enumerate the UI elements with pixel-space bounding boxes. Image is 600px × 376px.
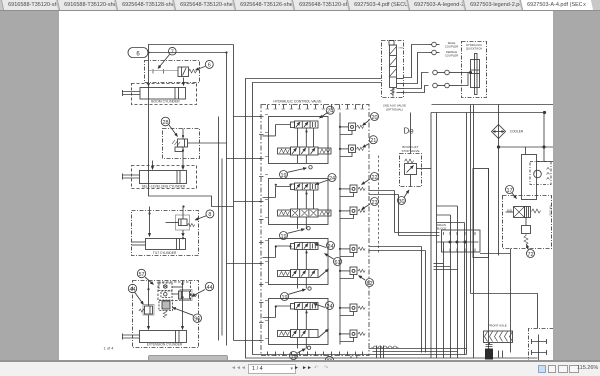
svg-text:De: De — [404, 127, 415, 136]
solenoid valve V2 — [278, 147, 332, 155]
relief valve RV5 — [339, 245, 365, 257]
svg-text:57: 57 — [138, 272, 144, 278]
relief valve RV4 — [339, 207, 365, 219]
wire bundle vertical D — [233, 45, 235, 341]
cooler — [492, 125, 506, 139]
top rail A — [432, 104, 554, 106]
node 19 callout circle d — [290, 346, 311, 360]
wire aux to couplers — [404, 45, 429, 93]
svg-text:20: 20 — [371, 115, 377, 121]
svg-text:22: 22 — [371, 175, 377, 181]
tilt valve — [166, 215, 195, 230]
boom pilot valve enclosure — [145, 61, 200, 83]
svg-text:30: 30 — [398, 199, 404, 205]
wire V3-V4 — [298, 190, 314, 229]
wire V7-V8 — [298, 310, 307, 349]
node 57 callout circle — [137, 269, 153, 284]
label 2ND AUX VALVE — [383, 104, 406, 112]
wire right risers — [351, 191, 440, 359]
label EXTENSION CYLINDER — [147, 342, 183, 346]
label HYDRAULIC QUICKTACH — [466, 43, 482, 51]
label COOLER — [510, 130, 524, 134]
tilt cylinder — [132, 239, 186, 250]
label FEMALE COUPLER — [445, 50, 459, 58]
label BOOM LIFT STOP VALVE — [401, 145, 419, 153]
node 24 callout circle section4 — [314, 302, 334, 310]
label TILT CYLINDER — [153, 251, 177, 255]
relief valve RV2 — [339, 145, 364, 157]
boom group outer frame — [149, 45, 234, 207]
directional valve V7 — [263, 303, 319, 318]
node 19 callout circle a — [280, 166, 313, 180]
svg-text:6: 6 — [208, 63, 211, 69]
svg-text:62: 62 — [366, 281, 372, 287]
wire valve to tilt cylinder — [182, 207, 184, 240]
aux valve enclosure — [382, 41, 404, 98]
label BOOM CYLINDER — [151, 99, 180, 103]
node 6 callout circle — [196, 60, 214, 70]
svg-text:6: 6 — [136, 52, 140, 58]
boom lift stop valve V9 — [405, 159, 432, 187]
left border ports — [259, 117, 264, 341]
svg-text:19: 19 — [280, 173, 286, 179]
quicktach enclosure — [462, 42, 487, 98]
self-levelling valve — [172, 135, 227, 152]
steering unit enclosure — [529, 329, 554, 362]
svg-text:24: 24 — [326, 304, 332, 310]
valve section frame 3 — [269, 239, 329, 285]
valve section frame 2 — [269, 179, 329, 225]
top rail B — [431, 111, 546, 113]
label DRAIN BLOCK — [437, 223, 447, 231]
node 96 callout circle — [173, 308, 202, 323]
wire to tilt cylinder rod end — [149, 207, 151, 237]
node 17 callout circle — [506, 186, 517, 199]
svg-text:TILT CYLINDER: TILT CYLINDER — [153, 251, 177, 255]
node 24 callout circle section2 — [316, 174, 337, 185]
svg-text:COUPLER: COUPLER — [445, 45, 459, 49]
svg-text:8: 8 — [208, 212, 211, 218]
female coupler — [429, 50, 440, 55]
wire drain feeders — [434, 264, 458, 270]
node 24 callout circle section3 — [315, 242, 335, 250]
wire bundle vertical A — [218, 117, 220, 341]
boom cylinder enclosure — [132, 84, 197, 105]
svg-text:24: 24 — [327, 109, 333, 115]
wire drain block drops — [437, 206, 465, 358]
svg-text:HYDRAULIC CONTROL VALVE: HYDRAULIC CONTROL VALVE — [273, 100, 322, 104]
quicktach cylinder — [462, 54, 480, 95]
svg-text:24: 24 — [327, 244, 333, 250]
node 21 callout circle — [363, 136, 378, 148]
boom lift stop valve enclosure — [400, 154, 422, 187]
main frame inner — [253, 83, 467, 355]
wire return rail — [497, 146, 553, 148]
svg-text:RETURN: RETURN — [549, 205, 553, 216]
svg-text:23: 23 — [371, 200, 377, 206]
steering unit — [532, 335, 547, 361]
svg-text:QUICKTACH: QUICKTACH — [466, 47, 482, 51]
node 44 callout circle right — [192, 282, 214, 296]
label return note — [549, 205, 553, 216]
wire bundle vertical B — [221, 159, 223, 336]
wire to extension cylinder rod end — [148, 281, 150, 330]
wire relief rail — [339, 113, 341, 345]
node 62 callout circle — [359, 276, 374, 287]
svg-text:(OPTIONAL): (OPTIONAL) — [386, 108, 403, 112]
extension valve right — [179, 290, 197, 301]
svg-text:BOOM CYLINDER: BOOM CYLINDER — [151, 99, 180, 103]
pilot wire — [149, 70, 178, 72]
reservoir — [522, 113, 554, 200]
node 19 callout circle b — [280, 227, 311, 241]
node 30 callout circle — [398, 190, 410, 205]
wire filter drain — [510, 249, 512, 353]
directional valve V1 — [263, 121, 319, 136]
wire bundle vertical C — [226, 53, 228, 346]
control valve top ports — [268, 105, 363, 109]
node 22 callout circle — [362, 173, 379, 185]
front axle hub — [485, 343, 503, 360]
svg-text:17: 17 — [506, 188, 512, 194]
svg-text:COUPLER: COUPLER — [445, 54, 459, 58]
node 44 callout circle left — [128, 284, 143, 304]
bottom toolbar — [0, 360, 600, 376]
svg-text:21: 21 — [370, 138, 376, 144]
relief valve RV7 — [339, 304, 365, 316]
male coupler — [429, 42, 440, 47]
svg-text:EXTENSION CYLINDER: EXTENSION CYLINDER — [147, 342, 183, 346]
node 26 callout circle — [325, 356, 333, 365]
svg-text:96: 96 — [194, 317, 200, 323]
label HYDRAULIC CONTROL VALVE — [273, 100, 322, 104]
directional valve V5 — [263, 243, 319, 258]
coupler pair row 1 — [433, 70, 462, 75]
svg-text:7: 7 — [171, 50, 174, 56]
main frame outer — [246, 79, 538, 359]
tilt group enclosure — [132, 211, 199, 256]
control valve bottom ports — [268, 352, 363, 356]
svg-text:19: 19 — [281, 295, 287, 301]
wire — [148, 52, 227, 54]
extension group enclosure — [133, 281, 199, 348]
self-levelling cylinder — [123, 171, 187, 184]
wire V5-V6 — [298, 250, 307, 289]
front axle tire — [484, 331, 513, 343]
wire to boom cylinder rod end — [147, 83, 150, 87]
wire crossovers — [372, 346, 399, 348]
wire front axle feed — [471, 294, 538, 329]
wire boom lift stop valve riser — [410, 113, 412, 154]
self-levelling cylinder enclosure — [132, 166, 197, 189]
horizontal scrollbar thumb — [148, 355, 228, 361]
valve section frame 1 — [269, 117, 329, 164]
right frame verticals — [431, 105, 499, 359]
svg-text:28: 28 — [162, 120, 168, 126]
left border port labels — [265, 115, 268, 339]
filter relief F2 — [522, 218, 531, 245]
relief valve RV1 — [339, 123, 364, 135]
svg-text:44: 44 — [206, 285, 212, 291]
filter F1 — [506, 207, 541, 218]
junction dots — [147, 51, 307, 313]
svg-text:COOLER: COOLER — [510, 130, 524, 134]
node 72 callout circle — [527, 245, 535, 259]
node 24 callout circle section1 — [320, 106, 335, 118]
wire valve to self-levelling cylinder — [182, 129, 184, 170]
node 28 callout circle — [161, 117, 177, 136]
label SELF-LEVELLING CYLINDER — [142, 184, 186, 188]
node 61 callout circle — [325, 254, 342, 266]
node 19 callout circle c — [281, 287, 312, 301]
pump circle P1 — [530, 162, 551, 185]
wire left port branches — [227, 117, 261, 341]
svg-text:72: 72 — [527, 252, 533, 258]
self-levelling valve enclosure — [163, 129, 200, 159]
solenoid valve V6 — [278, 269, 329, 278]
svg-text:SELF-LEVELLING CYLINDER: SELF-LEVELLING CYLINDER — [142, 184, 186, 188]
relief valve RV3 — [339, 185, 365, 197]
hydraulic control valve enclosure — [261, 105, 369, 356]
svg-text:6965: 6965 — [399, 48, 405, 50]
solenoid valve V4 — [278, 209, 332, 217]
node 6 callout stadium — [128, 48, 148, 58]
node 23 callout circle — [362, 198, 379, 210]
valve section frame 4 — [269, 299, 329, 345]
wire bottom ladder — [369, 349, 467, 352]
label FRONT AXLE — [488, 324, 507, 328]
boom cylinder — [123, 88, 186, 100]
tab bar — [0, 0, 600, 11]
label MALE COUPLER — [445, 41, 459, 49]
filter enclosure — [503, 196, 552, 249]
extension cylinder — [123, 331, 187, 343]
svg-text:FRONT AXLE: FRONT AXLE — [488, 324, 507, 328]
svg-text:19: 19 — [280, 234, 286, 240]
wire to extension cylinder head end — [182, 281, 184, 330]
drain block D1 — [437, 230, 511, 254]
pilot drain dashed — [378, 156, 380, 254]
relief valve RV8 — [339, 330, 365, 342]
wire to self-levelling cylinder rod end — [152, 161, 154, 170]
node 20 callout circle — [363, 113, 379, 126]
extension valve left — [139, 283, 184, 315]
relief valve RV6 — [339, 267, 365, 279]
label 1 of 4 — [103, 346, 114, 351]
extension relief — [159, 300, 173, 318]
svg-text:24: 24 — [329, 176, 335, 182]
svg-text:1 of 4: 1 of 4 — [103, 346, 114, 351]
wire V1-V2 — [298, 128, 314, 163]
label De — [404, 127, 415, 136]
wire to boom cylinder head end — [183, 78, 185, 86]
coupler pair row 2 — [433, 83, 462, 88]
directional valve V3 — [263, 183, 319, 198]
extension check valve block — [158, 282, 191, 301]
solenoid valve V8 — [278, 329, 329, 338]
manifold M1 — [473, 169, 489, 258]
node 7 callout circle — [158, 47, 176, 68]
boom pilot valve — [153, 67, 197, 77]
node 8 callout circle — [195, 210, 214, 220]
aux valve U2 — [389, 41, 404, 97]
port labels top — [266, 108, 365, 110]
